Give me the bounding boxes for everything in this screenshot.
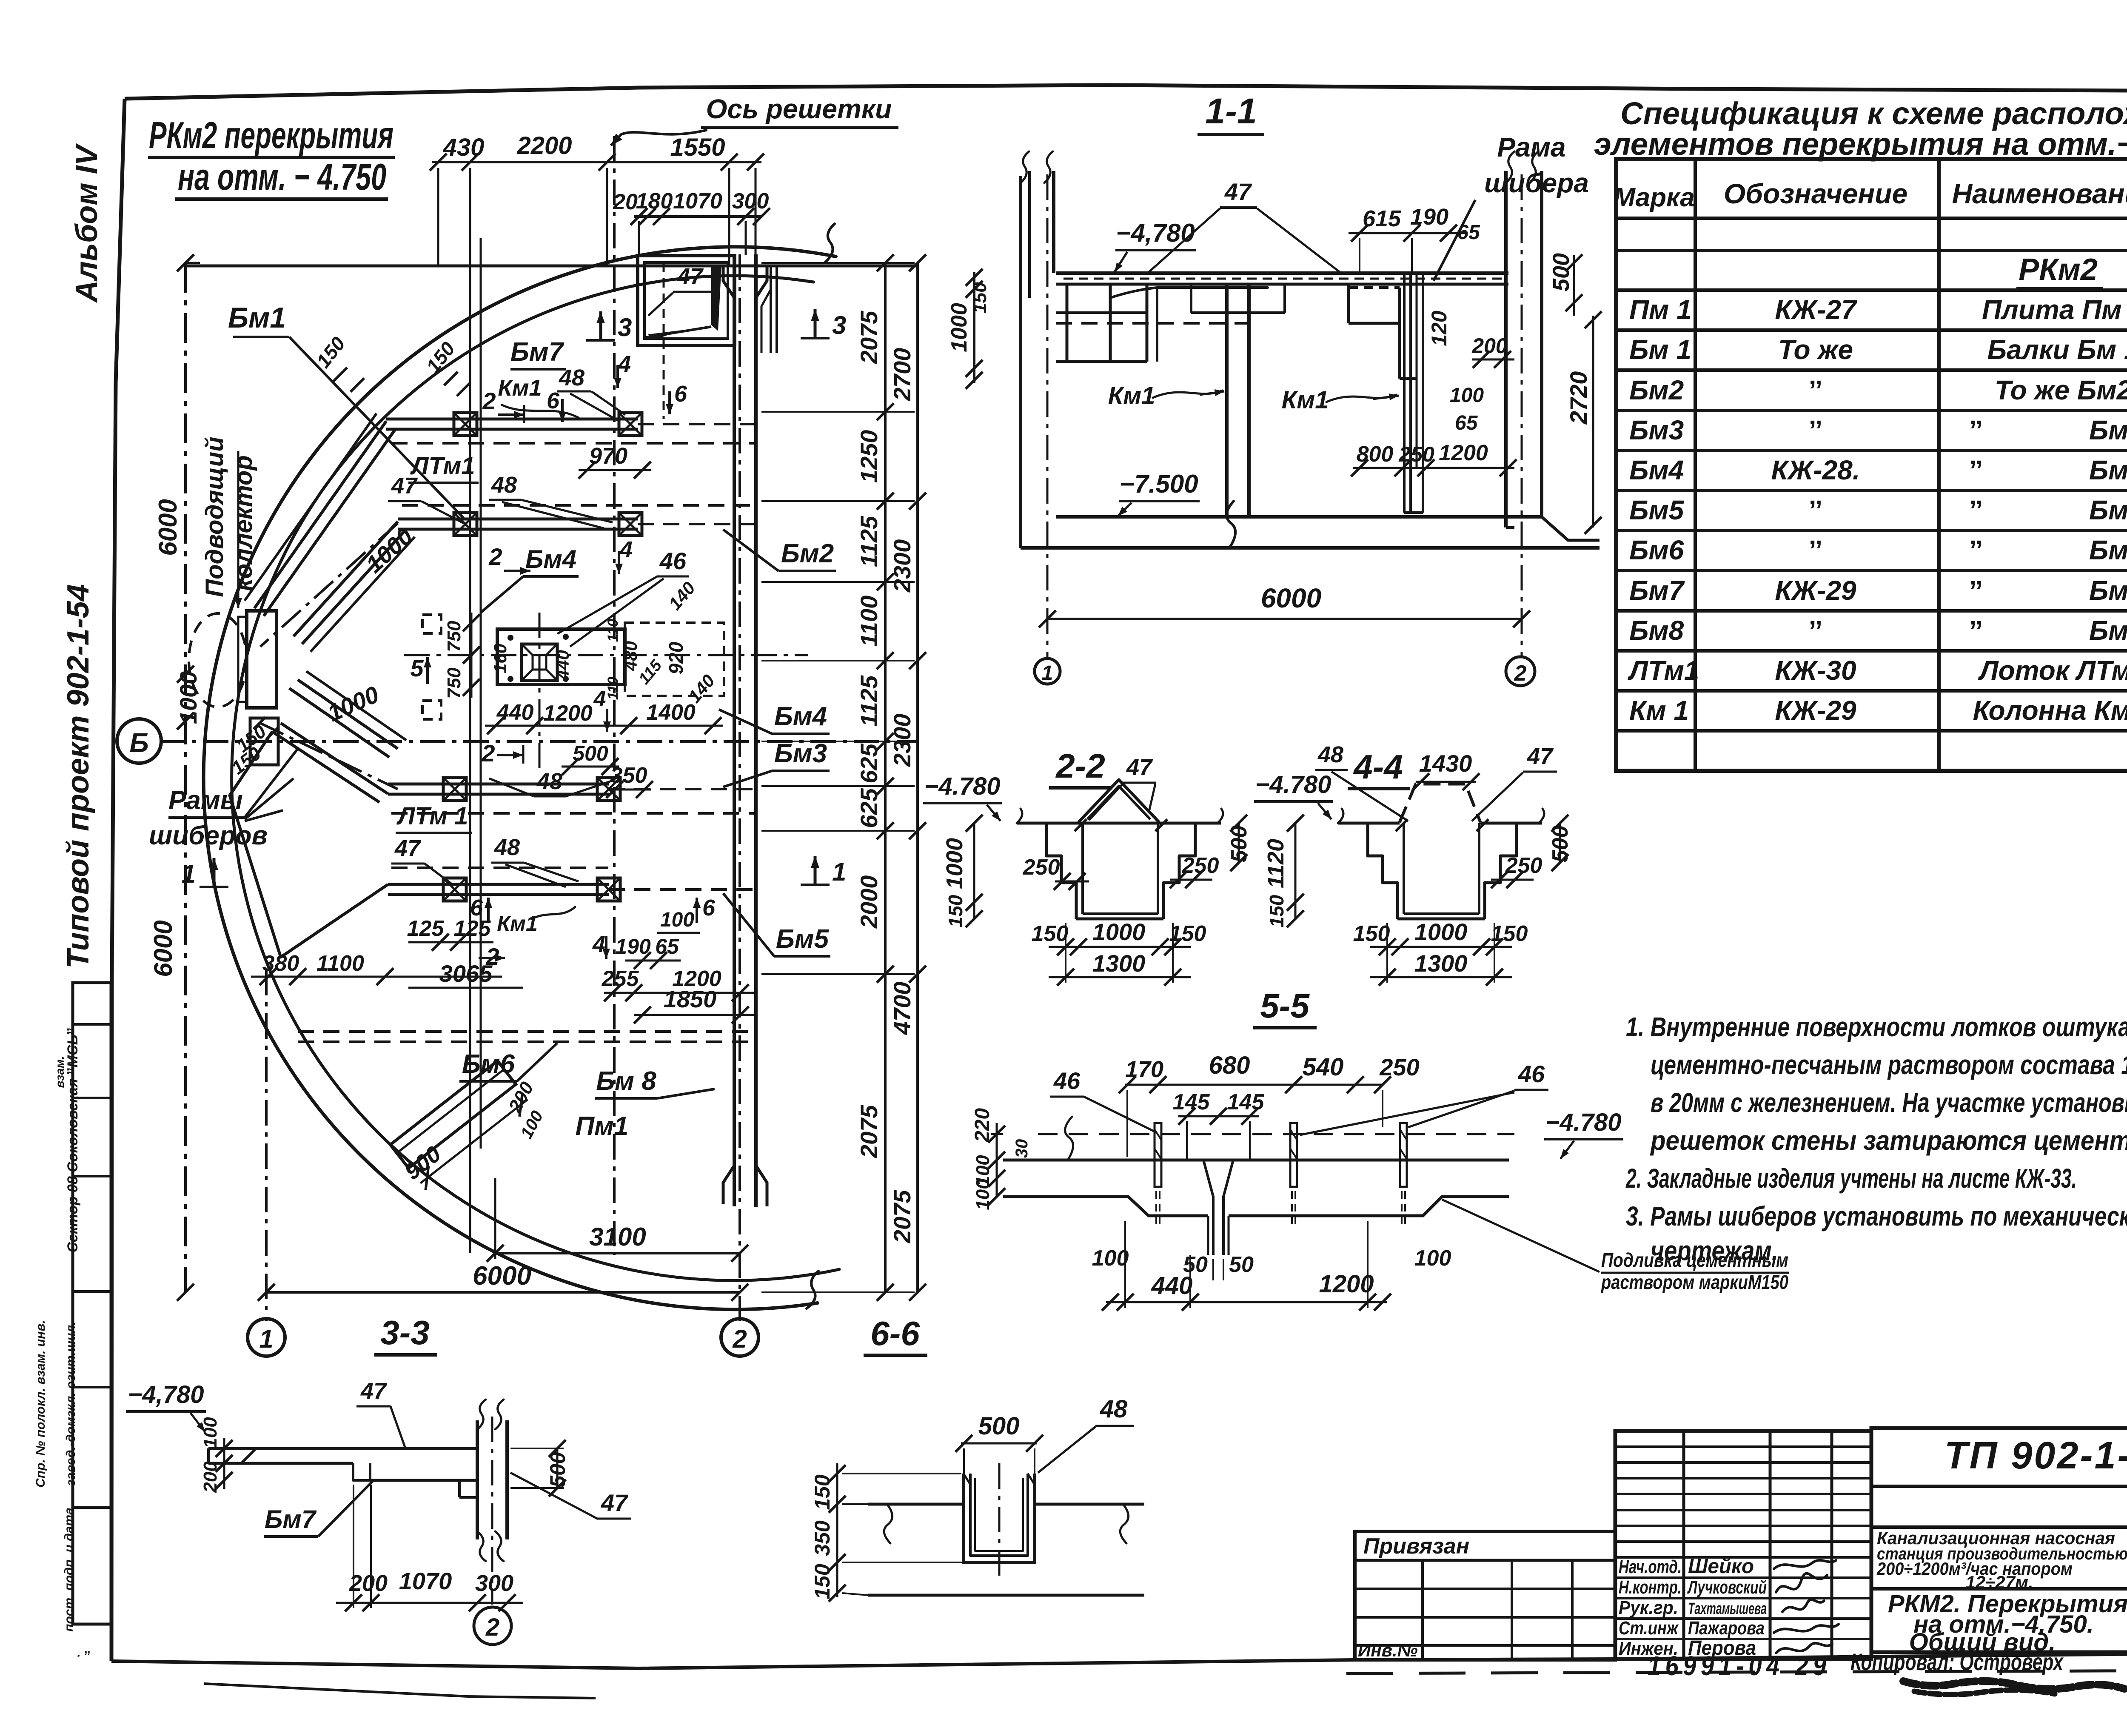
- section 4-4 bottom dims: [1353, 918, 1528, 986]
- svg-text:300: 300: [475, 1571, 513, 1596]
- svg-text:65: 65: [1455, 412, 1478, 434]
- section 4-4 label: [1348, 748, 1410, 789]
- section 1-1 slab top: [1056, 273, 1508, 284]
- section 2-2 level -4.780: [923, 773, 1002, 821]
- svg-text:200: 200: [1471, 334, 1508, 358]
- svg-text:140: 140: [664, 578, 699, 614]
- plan axis circle 1: [248, 1319, 285, 1356]
- section 6-6 center axis: [998, 1463, 1001, 1576]
- label Bm3 right: [723, 739, 830, 787]
- section 3-3 profile: [208, 1448, 477, 1480]
- svg-text:65: 65: [655, 935, 679, 958]
- title block TP number: [1945, 1434, 2127, 1477]
- svg-text:47: 47: [601, 1489, 629, 1516]
- svg-text:Рук.гр.: Рук.гр.: [1619, 1597, 1678, 1618]
- section 1-1 axis circle 2: [1506, 657, 1535, 686]
- svg-text:4: 4: [618, 351, 631, 377]
- title block signatures text: [1619, 1555, 1767, 1659]
- svg-text:145: 145: [1227, 1090, 1265, 1115]
- labels 125 125: [407, 916, 493, 951]
- svg-text:5: 5: [410, 655, 424, 681]
- title block right part frame: [1871, 1428, 2127, 1652]
- svg-text:Бм8: Бм8: [1629, 615, 1684, 646]
- lower-left bay wall outer2: [230, 732, 388, 957]
- svg-text:1000: 1000: [1414, 918, 1468, 945]
- svg-text:2075: 2075: [855, 311, 882, 364]
- section 5-5 label: [1253, 987, 1317, 1028]
- svg-text:48: 48: [1317, 742, 1343, 767]
- svg-text:Пм 1: Пм 1: [1629, 294, 1692, 325]
- svg-text:46: 46: [1053, 1067, 1081, 1094]
- svg-text:2075: 2075: [855, 1105, 882, 1158]
- svg-text:500: 500: [1548, 826, 1573, 863]
- title block middle grid: [1615, 1431, 1871, 1659]
- svg-text:750: 750: [444, 621, 465, 652]
- label 47 upper: [388, 473, 464, 523]
- svg-text:ˮ: ˮ: [1969, 535, 1983, 565]
- svg-text:ЛТм 1: ЛТм 1: [396, 802, 468, 830]
- svg-text:1200: 1200: [543, 701, 593, 726]
- plan axis 1 vertical dash-dot: [265, 970, 268, 1321]
- upper-left bay wall outer: [245, 413, 396, 616]
- svg-text:Инв.№: Инв.№: [1358, 1640, 1418, 1660]
- svg-text:РКм2 перекрытия: РКм2 перекрытия: [149, 114, 393, 156]
- svg-text:Км1: Км1: [498, 375, 542, 401]
- label 2 arrow lower: [481, 740, 523, 767]
- svg-text:ЛТм1: ЛТм1: [1628, 655, 1699, 686]
- svg-text:250: 250: [1379, 1054, 1419, 1080]
- svg-text:46: 46: [1518, 1060, 1545, 1087]
- svg-text:200: 200: [349, 1571, 388, 1596]
- plan right wall chamfer top: [723, 266, 767, 298]
- svg-text:Ось решетки: Ось решетки: [706, 94, 892, 124]
- label Km1 lower: [497, 907, 575, 935]
- section 1-1 right wall: [1506, 151, 1600, 540]
- spec table row RKm2 heading: [2016, 253, 2103, 288]
- svg-text:150: 150: [810, 1474, 834, 1510]
- svg-text:Пажарова: Пажарова: [1688, 1618, 1765, 1639]
- bay diagonal dash-dot 1: [260, 522, 418, 647]
- svg-text:3: 3: [618, 313, 632, 342]
- section mark 1 up left: [182, 858, 228, 888]
- svg-text:100: 100: [660, 909, 694, 931]
- title block signature squiggles: [1774, 1560, 1839, 1653]
- svg-text:Балки Бм 1: Балки Бм 1: [1987, 334, 2127, 365]
- svg-text:255: 255: [602, 966, 639, 991]
- kopiroval text: [1850, 1648, 2064, 1675]
- svg-text:1: 1: [1042, 662, 1053, 684]
- section 1-1 interior walls: [1056, 284, 1255, 362]
- svg-text:Лоток ЛТм1: Лоток ЛТм1: [1978, 655, 2127, 686]
- svg-text:1430: 1430: [1419, 750, 1472, 777]
- svg-text:1-1: 1-1: [1205, 91, 1257, 131]
- svg-text:3065: 3065: [439, 960, 493, 987]
- section 2-2 corner hatch marks: [1075, 819, 1167, 831]
- beam row 1 (Bm1 top): [386, 413, 754, 443]
- shiber frame outer rect: [497, 629, 625, 684]
- svg-text:Км1: Км1: [1282, 386, 1329, 414]
- svg-text:1000: 1000: [175, 671, 202, 724]
- label 6 up lower right: [693, 895, 716, 923]
- svg-text:110: 110: [605, 677, 621, 700]
- plan right dim chain inner: [761, 254, 915, 1301]
- labels 190 65: [615, 935, 681, 969]
- title block sheet name: [1888, 1590, 2127, 1656]
- svg-text:Бм2: Бм2: [1629, 375, 1684, 405]
- svg-text:500: 500: [1548, 253, 1574, 291]
- svg-text:взам.: взам.: [53, 1056, 66, 1088]
- svg-text:3100: 3100: [589, 1223, 646, 1251]
- svg-text:48: 48: [494, 835, 520, 860]
- section 2-2 left dims: [942, 815, 983, 927]
- label 6 up lower: [470, 895, 492, 923]
- label Bm6: [459, 1043, 557, 1081]
- svg-text:47: 47: [1224, 178, 1252, 205]
- svg-text:Тахтамышева: Тахтамышева: [1688, 1600, 1767, 1618]
- svg-text:Бм6: Бм6: [1629, 535, 1684, 565]
- svg-text:Подводящий: Подводящий: [201, 436, 228, 597]
- svg-text:Бм 1: Бм 1: [1629, 334, 1691, 365]
- svg-text:на отм. − 4.750: на отм. − 4.750: [178, 156, 386, 198]
- svg-text:48: 48: [559, 365, 584, 391]
- section 5-5 level -4.780 right: [1544, 1109, 1623, 1159]
- svg-text:160: 160: [490, 644, 510, 673]
- svg-text:150: 150: [810, 1564, 834, 1599]
- section 6-6 slab lines: [868, 1504, 1144, 1595]
- section 5-5 dims 50 50: [1183, 1252, 1254, 1280]
- svg-text:Бм5: Бм5: [2089, 495, 2127, 525]
- plan top reference line: [185, 265, 919, 268]
- svg-text:решеток стены затираются цем: решеток стены затираются цементным раств…: [1650, 1125, 2127, 1156]
- label 48 lower mid: [489, 769, 613, 796]
- svg-text:2300: 2300: [889, 539, 915, 593]
- label 46 center: [557, 547, 689, 647]
- stamp box small vertical notes: [62, 1027, 91, 1663]
- svg-text:То же: То же: [1778, 334, 1853, 365]
- svg-text:ˮ: ˮ: [1969, 495, 1983, 525]
- shiber detail axis lines: [404, 613, 808, 774]
- svg-text:6: 6: [547, 388, 560, 413]
- margin tiny inventory text: [34, 1056, 66, 1488]
- spec table data rows: [1628, 294, 2127, 726]
- section 5-5 top dims 170 680 540 250: [1119, 1052, 1420, 1157]
- svg-text:615: 615: [1363, 206, 1401, 231]
- label 4 bottom: [592, 932, 610, 959]
- svg-text:6000: 6000: [154, 499, 182, 556]
- svg-text:2720: 2720: [1565, 371, 1592, 425]
- section 4-4 level -4.780: [1254, 771, 1333, 819]
- svg-text:1070: 1070: [673, 189, 722, 214]
- svg-text:350: 350: [810, 1520, 834, 1556]
- svg-text:КЖ-29: КЖ-29: [1775, 575, 1856, 606]
- svg-text:6000: 6000: [473, 1261, 531, 1291]
- svg-text:пост. подп. и дата: пост. подп. и дата: [62, 1508, 76, 1632]
- svg-text:6000: 6000: [149, 920, 177, 977]
- section 1-1 Km1 label right: [1282, 386, 1399, 414]
- svg-text:500: 500: [546, 1452, 570, 1488]
- plan axis gate vertical dash-dot: [613, 136, 616, 1255]
- section 2-2 right dim 500: [1227, 815, 1252, 871]
- svg-text:1100: 1100: [855, 596, 882, 647]
- svg-text:4700: 4700: [889, 982, 915, 1035]
- section 3-3 wall: [459, 1400, 507, 1561]
- svg-text:12÷27м.: 12÷27м.: [1965, 1572, 2033, 1592]
- margin stamp boxes column: [73, 983, 111, 1624]
- svg-text:Рама: Рама: [1497, 132, 1565, 162]
- section 1-1 level -4.780: [1114, 219, 1196, 273]
- lower-left bay wall outer: [272, 723, 388, 802]
- section 4-4 right dim 500: [1548, 815, 1573, 871]
- label Ramy shiberov: [149, 749, 298, 850]
- svg-text:2: 2: [481, 740, 495, 767]
- section 5-5 left dims: [971, 1108, 1031, 1210]
- section 5-5 slab bottom profile: [1003, 1197, 1509, 1216]
- svg-text:Копировал: Островерх: Копировал: Островерх: [1850, 1648, 2064, 1675]
- mid dashed column squares: [422, 615, 441, 719]
- svg-text:Бм3: Бм3: [1629, 415, 1684, 445]
- svg-text:ˮ: ˮ: [1969, 615, 1983, 646]
- svg-text:125: 125: [407, 916, 445, 941]
- section 1-1 curved wall detail: [1110, 288, 1268, 362]
- svg-text:2700: 2700: [889, 348, 915, 402]
- label 970 with dim: [579, 443, 651, 479]
- svg-text:1000: 1000: [1092, 918, 1146, 945]
- section 1-1 right chamber: [1349, 284, 1417, 379]
- label Bm4 right: [719, 702, 830, 734]
- section 5-5 dims 145 145: [1173, 1090, 1265, 1161]
- section mark 1 up right: [801, 856, 846, 886]
- svg-text:коллектор: коллектор: [230, 455, 257, 591]
- label Bm7: [510, 337, 566, 369]
- plan axis 2 vertical dash-dot: [738, 254, 741, 1321]
- svg-text:Бм4: Бм4: [774, 702, 827, 731]
- section 1-1 label 47 with leaders: [1149, 178, 1340, 272]
- svg-text:Типовой проект 902-1-54: Типовой проект 902-1-54: [61, 584, 95, 969]
- svg-text:4: 4: [593, 687, 606, 711]
- section 5-5 label 46 right: [1300, 1060, 1548, 1135]
- svg-text:180: 180: [636, 189, 673, 214]
- svg-text:Бм3: Бм3: [2089, 415, 2127, 445]
- svg-text:Альбом IV: Альбом IV: [70, 143, 104, 303]
- svg-text:2200: 2200: [516, 132, 572, 160]
- bottom torn dashed line: [1346, 1670, 2127, 1673]
- label 5 up: [410, 655, 431, 684]
- bottom stray line left: [204, 1684, 596, 1698]
- section 1-1 shiber frame verticals: [1404, 273, 1423, 513]
- svg-text:3. Рамы шиберов установить: 3. Рамы шиберов установить по механическ…: [1626, 1201, 2127, 1231]
- svg-text:2-2: 2-2: [1055, 747, 1105, 785]
- svg-text:430: 430: [443, 134, 485, 161]
- section mark 3 up right: [801, 309, 846, 339]
- svg-text:170: 170: [1125, 1057, 1163, 1082]
- spec table header text: [1613, 170, 2127, 219]
- section 5-5 funnel: [1203, 1160, 1233, 1255]
- svg-text:380: 380: [262, 951, 299, 976]
- svg-text:Бм2: Бм2: [781, 539, 834, 568]
- section 5-5 pins: [1155, 1123, 1161, 1229]
- svg-text:1550: 1550: [670, 134, 725, 161]
- section 1-1 center T-beam: [1191, 284, 1285, 517]
- svg-text:20: 20: [613, 190, 638, 214]
- svg-text:150: 150: [1032, 921, 1069, 946]
- section 3-3 label Bm7: [264, 1479, 374, 1536]
- svg-text:4-4: 4-4: [1353, 748, 1403, 786]
- section 2-2 profile: [1017, 780, 1223, 919]
- svg-text:Бм7: Бм7: [2089, 575, 2127, 606]
- plan right wall chamfer bottom: [723, 1166, 767, 1206]
- svg-text:47: 47: [360, 1378, 388, 1404]
- svg-text:завед.-домзкл. озит.шил.: завед.-домзкл. озит.шил.: [64, 1321, 78, 1486]
- svg-text:ˮ: ˮ: [1809, 415, 1822, 445]
- margin vertical text Album IV: [70, 143, 104, 303]
- label Pm1: [576, 1112, 629, 1141]
- plan axis B horizontal dash-dot: [160, 740, 919, 743]
- svg-text:КЖ-28.: КЖ-28.: [1771, 455, 1860, 485]
- svg-text:1: 1: [832, 858, 846, 886]
- svg-text:48: 48: [1100, 1395, 1128, 1423]
- svg-text:47: 47: [1126, 755, 1153, 780]
- svg-text:30: 30: [1012, 1139, 1031, 1158]
- svg-text:Км 1: Км 1: [1629, 695, 1689, 726]
- svg-text:100: 100: [1450, 384, 1484, 407]
- shiber dim 750 750: [444, 613, 480, 699]
- svg-text:Рамы: Рамы: [168, 786, 243, 815]
- label Bm8: [595, 1066, 715, 1098]
- scan smudge under kopiroval: [1903, 1681, 2124, 1695]
- svg-text:Бм5: Бм5: [776, 924, 830, 954]
- section 1-1 right dims: [1427, 253, 1602, 534]
- bay diagonal dash-dot 2: [260, 681, 398, 789]
- svg-text:1070: 1070: [399, 1568, 452, 1594]
- section 2-2 dim 250 left: [1023, 855, 1089, 890]
- angled beam Bm6 parallelogram: [390, 1061, 516, 1168]
- svg-text:Спр. № полокл. взам. инв.: Спр. № полокл. взам. инв.: [34, 1320, 48, 1488]
- svg-text:ˮ: ˮ: [1969, 415, 1983, 445]
- section 3-3 axis circle 2: [474, 1607, 511, 1645]
- svg-text:110: 110: [605, 619, 621, 642]
- section mark 3 up left: [586, 311, 632, 342]
- grate axis vertical dashed: [663, 263, 665, 419]
- section 5-5 slab top: [1003, 1117, 1509, 1160]
- tick marks 150 upper arc: [312, 333, 470, 396]
- label LTm1 lower: [396, 802, 472, 833]
- section 6-6 channel: [964, 1474, 1035, 1562]
- svg-text:625: 625: [855, 743, 882, 783]
- section 3-3 bottom dims 200 1070 300: [336, 1485, 523, 1611]
- sheet frame left border: [111, 99, 125, 1661]
- svg-text:47: 47: [677, 264, 704, 289]
- svg-text:чертежам.: чертежам.: [1651, 1235, 1778, 1266]
- section 1-1 dims 800 250 1200: [1351, 441, 1517, 476]
- section 3-3 label 47 top: [356, 1378, 405, 1447]
- label Podlivka cementnym: [1442, 1200, 1789, 1293]
- section 5-5 bottom dims: [1092, 1221, 1451, 1311]
- svg-text:Бм5: Бм5: [1629, 495, 1685, 525]
- svg-text:3: 3: [832, 311, 846, 339]
- sheet frame bottom border: [111, 1652, 2127, 1668]
- svg-text:Плита Пм 1: Плита Пм 1: [1982, 294, 2127, 325]
- plan bottom dim 6000: [258, 1261, 748, 1301]
- svg-text:КЖ-29: КЖ-29: [1775, 695, 1856, 726]
- svg-text:Бм7: Бм7: [265, 1505, 317, 1534]
- svg-text:16991-04 29: 16991-04 29: [1648, 1650, 1830, 1681]
- title block object description: [1876, 1528, 2127, 1592]
- svg-text:Бм1: Бм1: [228, 302, 286, 334]
- svg-text:190: 190: [615, 935, 651, 958]
- plan axis circle 2: [721, 1319, 758, 1356]
- label 2 arrow bottom: [479, 943, 505, 970]
- svg-text:750: 750: [444, 667, 465, 699]
- spec table grid: [1616, 159, 2127, 771]
- svg-text:1400: 1400: [646, 700, 696, 725]
- svg-text:800: 800: [1357, 442, 1394, 467]
- svg-text:Б: Б: [129, 727, 148, 758]
- svg-text:46: 46: [659, 547, 687, 574]
- svg-text:970: 970: [589, 443, 627, 469]
- beam row 2 (LTm1 top): [398, 505, 754, 536]
- svg-text:2: 2: [482, 388, 496, 414]
- labels 150 left lower: [228, 721, 270, 778]
- svg-text:200: 200: [200, 1461, 221, 1493]
- svg-text:−4,780: −4,780: [128, 1381, 204, 1408]
- label Bm1: [228, 302, 464, 518]
- svg-text:125: 125: [454, 916, 491, 941]
- svg-text:Нач.отд.: Нач.отд.: [1619, 1556, 1682, 1577]
- svg-text:50: 50: [1229, 1252, 1254, 1277]
- svg-text:Привязан: Привязан: [1363, 1534, 1469, 1559]
- svg-text:900: 900: [400, 1141, 446, 1185]
- grate opening rectangle: [638, 256, 735, 345]
- svg-text:ˮ: ˮ: [1809, 535, 1822, 565]
- section 2-2 label: [1049, 747, 1112, 788]
- section 1-1 left wall: [1021, 151, 1054, 548]
- section 4-4 left dims: [1263, 815, 1304, 927]
- svg-text:540: 540: [1303, 1053, 1344, 1081]
- svg-text:1000: 1000: [942, 838, 967, 889]
- svg-text:Н.контр.: Н.контр.: [1619, 1577, 1682, 1598]
- plan arc break marks: [807, 224, 835, 1308]
- svg-text:625: 625: [855, 788, 882, 828]
- svg-text:150: 150: [1353, 921, 1390, 946]
- plan inner circular wall arc: [232, 276, 839, 1280]
- bay vertex block: [250, 717, 278, 765]
- svg-text:6: 6: [674, 381, 687, 407]
- svg-text:Км1: Км1: [1108, 382, 1155, 410]
- svg-text:100: 100: [1092, 1246, 1129, 1271]
- svg-text:100: 100: [972, 1179, 993, 1210]
- upper-left bay wall inner: [294, 522, 415, 652]
- notes text block: [1625, 1012, 2127, 1266]
- svg-text:150: 150: [969, 282, 990, 314]
- beam row 3 (LTm1 bottom): [388, 778, 754, 813]
- svg-text:500: 500: [573, 741, 608, 765]
- hidden beam dashed rails bottom: [298, 1032, 753, 1042]
- section 3-3 axis: [491, 1417, 493, 1605]
- svg-text:1200: 1200: [1439, 441, 1488, 465]
- handwritten 16991-04 29: [1648, 1650, 1830, 1681]
- svg-text:440: 440: [553, 650, 573, 680]
- svg-text:2000: 2000: [855, 875, 882, 929]
- plan bottom dim 3100: [487, 1178, 748, 1262]
- shiber gate square: [508, 634, 569, 682]
- svg-text:4: 4: [619, 537, 633, 562]
- svg-text:ˮ: ˮ: [1969, 455, 1983, 485]
- beam row 4 (bottom): [388, 868, 754, 901]
- svg-text:шиберов: шиберов: [149, 821, 268, 850]
- svg-text:цементно-песчаным раствором: цементно-песчаным раствором состава 1:2.: [1651, 1049, 2127, 1080]
- axis B circle: [117, 719, 161, 763]
- svg-text:Спецификация к схеме распол: Спецификация к схеме расположения: [1620, 96, 2127, 131]
